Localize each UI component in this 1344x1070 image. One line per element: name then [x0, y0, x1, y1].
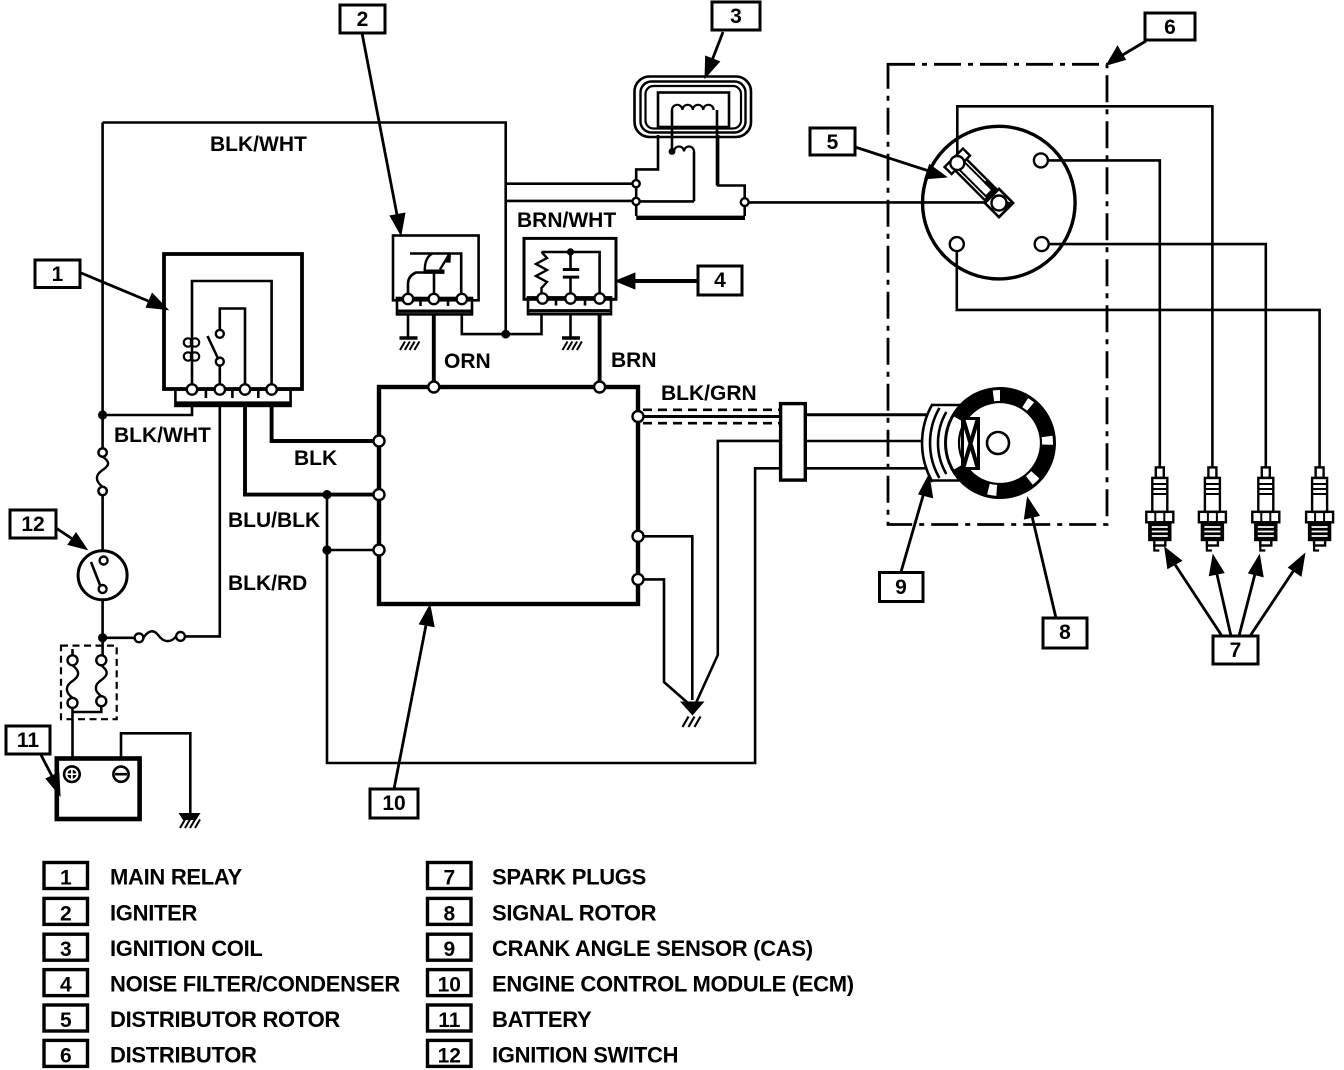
svg-text:7: 7	[1230, 639, 1242, 662]
svg-text:10: 10	[382, 792, 405, 815]
svg-text:8: 8	[1059, 621, 1071, 644]
svg-text:ORN: ORN	[444, 350, 491, 373]
svg-text:1: 1	[60, 867, 72, 890]
svg-text:BLK/GRN: BLK/GRN	[661, 382, 757, 405]
svg-text:11: 11	[438, 1009, 461, 1032]
svg-text:3: 3	[730, 5, 742, 28]
svg-text:BLK: BLK	[294, 447, 337, 470]
svg-text:BLK/WHT: BLK/WHT	[114, 424, 211, 447]
svg-text:NOISE FILTER/CONDENSER: NOISE FILTER/CONDENSER	[110, 972, 400, 997]
svg-text:BRN: BRN	[611, 349, 657, 372]
svg-text:BLK/WHT: BLK/WHT	[210, 133, 307, 156]
svg-text:SPARK PLUGS: SPARK PLUGS	[492, 865, 646, 890]
svg-text:1: 1	[52, 263, 64, 286]
svg-text:ENGINE CONTROL MODULE (ECM): ENGINE CONTROL MODULE (ECM)	[492, 972, 854, 997]
svg-text:9: 9	[443, 938, 455, 961]
svg-text:8: 8	[443, 902, 455, 925]
svg-text:7: 7	[443, 867, 455, 890]
svg-text:IGNITION SWITCH: IGNITION SWITCH	[492, 1042, 678, 1067]
svg-text:4: 4	[60, 974, 72, 997]
svg-text:9: 9	[895, 576, 907, 599]
svg-text:12: 12	[21, 513, 44, 536]
svg-text:DISTRIBUTOR: DISTRIBUTOR	[110, 1042, 257, 1067]
svg-text:MAIN RELAY: MAIN RELAY	[110, 865, 242, 890]
svg-text:BRN/WHT: BRN/WHT	[517, 209, 616, 232]
svg-text:BLK/RD: BLK/RD	[228, 572, 307, 595]
svg-text:IGNITER: IGNITER	[110, 900, 198, 925]
svg-text:SIGNAL ROTOR: SIGNAL ROTOR	[492, 900, 657, 925]
svg-text:3: 3	[60, 938, 72, 961]
svg-text:DISTRIBUTOR ROTOR: DISTRIBUTOR ROTOR	[110, 1007, 340, 1032]
svg-text:2: 2	[357, 8, 369, 31]
svg-text:5: 5	[827, 131, 839, 154]
svg-text:2: 2	[60, 902, 72, 925]
svg-text:BATTERY: BATTERY	[492, 1007, 592, 1032]
svg-text:IGNITION COIL: IGNITION COIL	[110, 936, 263, 961]
svg-text:6: 6	[1164, 16, 1176, 39]
svg-text:11: 11	[17, 729, 40, 752]
svg-text:CRANK ANGLE SENSOR (CAS): CRANK ANGLE SENSOR (CAS)	[492, 936, 813, 961]
svg-text:6: 6	[60, 1044, 72, 1067]
svg-text:4: 4	[714, 269, 726, 292]
svg-text:12: 12	[438, 1044, 461, 1067]
svg-text:10: 10	[438, 974, 461, 997]
svg-text:BLU/BLK: BLU/BLK	[228, 509, 320, 532]
svg-text:5: 5	[60, 1009, 72, 1032]
